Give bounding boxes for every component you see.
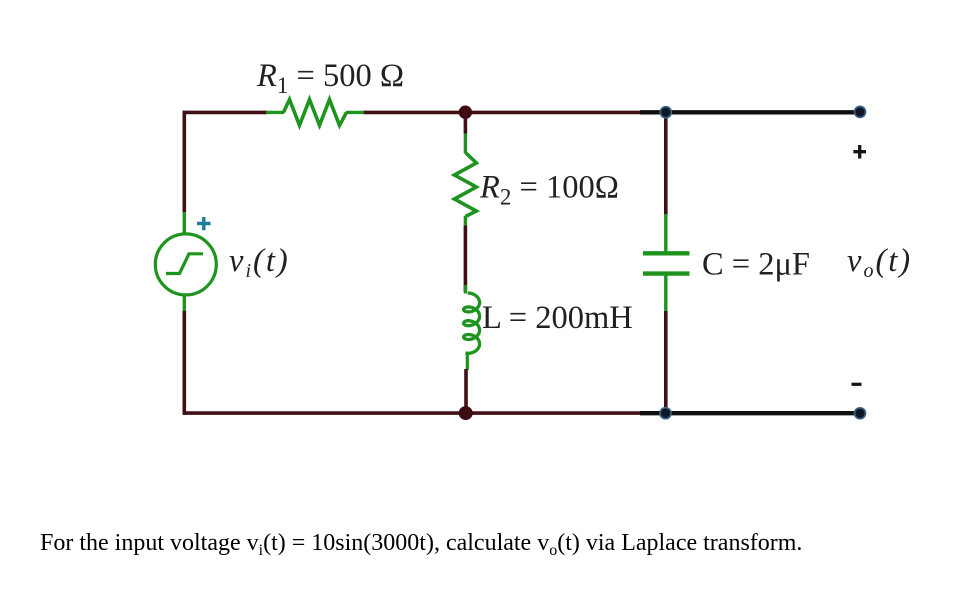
output wire top (black) — [640, 110, 860, 114]
svg-text:R2 = 100Ω: R2 = 100Ω — [479, 170, 619, 210]
wire right branch lower stub (maroon) — [664, 311, 668, 413]
output wire bottom (black) — [640, 411, 860, 415]
node bottom-right junction dot (navy) — [660, 408, 671, 419]
voltage source polarity + (teal) — [197, 217, 211, 230]
wire bottom horizontal (maroon) — [183, 411, 667, 415]
resistor R1 zigzag — [284, 100, 347, 126]
output terminal top dot (navy) — [855, 106, 866, 117]
svg-text:vi(t): vi(t) — [229, 243, 290, 282]
wire middle branch lower stub (maroon) — [464, 369, 468, 413]
resistor R1 lead right (green) — [346, 111, 364, 114]
inductor L lead top (green) — [464, 285, 467, 294]
voltage source V1 lead bottom (green) — [183, 296, 186, 312]
wire middle branch between R2 and L (maroon) — [464, 226, 468, 293]
output terminal bottom dot (navy) — [855, 408, 866, 419]
capacitor C lead top (green) — [664, 214, 667, 253]
inductor L coil — [464, 293, 480, 353]
inductor L lead bottom (green) — [466, 352, 469, 370]
wire left vertical lower (maroon) — [183, 310, 187, 415]
output polarity + — [853, 145, 866, 159]
voltage source V1 lead top (green) — [183, 212, 186, 234]
capacitor C bottom plate — [643, 271, 690, 275]
wire left vertical upper (maroon) — [183, 111, 187, 213]
voltage source V1 circle — [155, 234, 216, 295]
output polarity - — [852, 383, 862, 386]
capacitor C top plate — [643, 251, 690, 255]
svg-text:L = 200mH: L = 200mH — [482, 300, 633, 336]
resistor R2 zigzag — [454, 153, 476, 217]
wire top horizontal right segment (maroon) — [363, 111, 666, 115]
svg-text:For the input voltage vi(t) =: For the input voltage vi(t) = 10sin(3000… — [40, 530, 802, 559]
resistor R1 lead left (green) — [266, 111, 284, 114]
svg-text:R1 = 500 Ω: R1 = 500 Ω — [256, 58, 404, 98]
voltage source V1 step waveform symbol — [166, 254, 203, 274]
wire middle branch upper stub (maroon) — [464, 112, 468, 134]
resistor R2 lead top (green) — [464, 134, 467, 154]
wire right branch upper stub (maroon) — [664, 112, 668, 215]
node B junction dot (bottom middle, maroon) — [459, 406, 473, 420]
node top-right junction dot (navy) — [660, 107, 671, 118]
resistor R2 lead bottom (green) — [464, 216, 467, 227]
svg-text:C = 2μF: C = 2μF — [702, 247, 810, 283]
svg-text:vo(t): vo(t) — [847, 243, 912, 282]
capacitor C lead bottom (green) — [664, 274, 667, 312]
wire top horizontal left segment (maroon) — [183, 111, 268, 115]
node A junction dot (top middle, maroon) — [459, 106, 472, 119]
